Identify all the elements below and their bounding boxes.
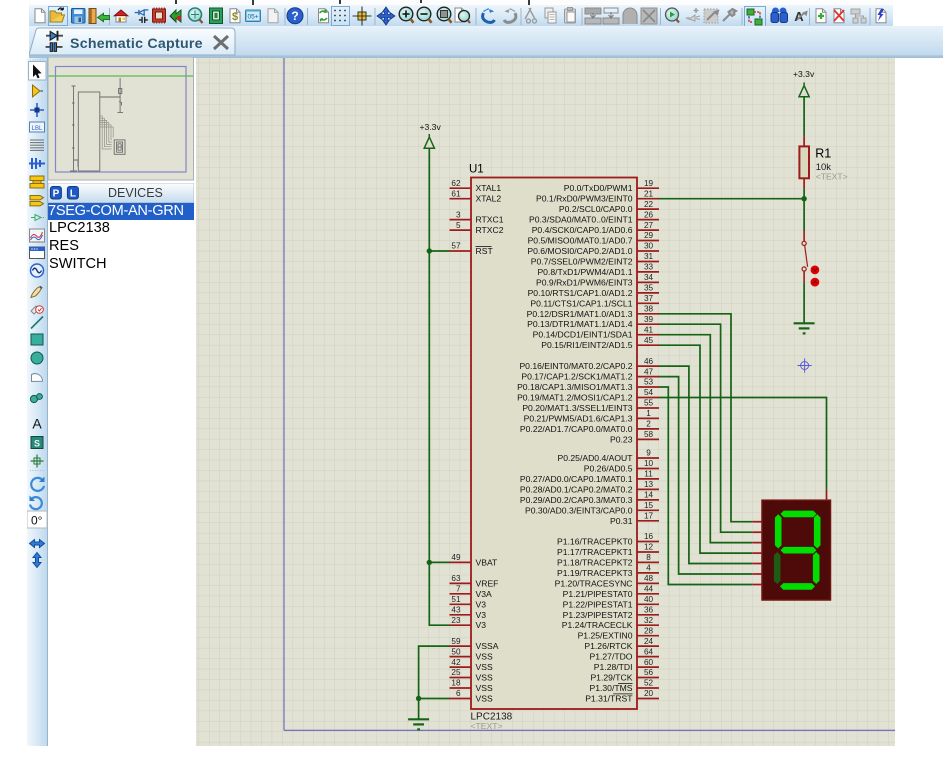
svg-text:22: 22 [644,200,654,209]
svg-text:RTXC1: RTXC1 [476,215,504,225]
svg-text:54: 54 [644,388,654,397]
svg-text:P0.3/SDA0/MAT0..0/EINT1: P0.3/SDA0/MAT0..0/EINT1 [529,215,633,225]
right margin [895,58,943,773]
svg-text:20: 20 [644,689,654,698]
svg-text:3: 3 [456,210,461,219]
svg-text:VSS: VSS [476,694,493,704]
svg-text:P1.27/TDO: P1.27/TDO [590,652,633,662]
svg-text:P0.28/AD0.1/CAP0.2/MAT0.2: P0.28/AD0.1/CAP0.2/MAT0.2 [520,484,633,494]
svg-text:7: 7 [456,585,461,594]
svg-text:24: 24 [644,637,654,646]
svg-text:5: 5 [456,221,461,230]
junction node P0.1/R1/switch [801,196,806,201]
wire P0.13 to 7-seg pin 2 [659,324,752,532]
svg-text:P0.26/AD0.5: P0.26/AD0.5 [584,464,633,474]
svg-text:V3: V3 [476,599,487,609]
svg-text:37: 37 [644,294,654,303]
svg-text:P1.17/TRACEPKT1: P1.17/TRACEPKT1 [557,547,633,557]
bottom margin [0,746,943,773]
svg-text:36: 36 [644,606,654,615]
svg-text:P0.6/MOSI0/CAP0.2/AD1.0: P0.6/MOSI0/CAP0.2/AD1.0 [527,246,632,256]
power terminal +3.3v (right) [793,69,815,97]
svg-text:P0.21/PWM5/AD1.6/CAP1.3: P0.21/PWM5/AD1.6/CAP1.3 [524,413,633,423]
svg-text:+3.3v: +3.3v [420,122,442,132]
svg-text:P0.13/DTR1/MAT1.1/AD1.4: P0.13/DTR1/MAT1.1/AD1.4 [527,319,633,329]
svg-text:RTXC2: RTXC2 [476,225,504,235]
wire +3.3v to R1 [803,97,805,137]
left margin column [0,5,27,773]
svg-text:17: 17 [644,512,654,521]
resistor R1 10k [799,136,847,189]
svg-text:1: 1 [646,409,651,418]
U1 right pins P0.x P1.x [517,179,659,704]
svg-text:XTAL1: XTAL1 [476,183,502,193]
svg-text:44: 44 [644,585,654,594]
canvas background grid [196,58,895,746]
devices header [48,183,194,203]
svg-text:VSS: VSS [476,683,493,693]
svg-text:23: 23 [451,616,461,625]
svg-text:15: 15 [644,501,654,510]
svg-text:32: 32 [644,616,654,625]
svg-text:27: 27 [644,221,654,230]
svg-text:P0.27/AD0.0/CAP0.1/MAT0.1: P0.27/AD0.0/CAP0.1/MAT0.1 [520,474,633,484]
svg-text:40: 40 [644,595,654,604]
svg-text:25: 25 [451,668,461,677]
svg-text:P0.1/RxD0/PWM3/EINT0: P0.1/RxD0/PWM3/EINT0 [536,194,633,204]
svg-text:P0.25/AD0.4/AOUT: P0.25/AD0.4/AOUT [558,453,634,463]
svg-text:VSSA: VSSA [476,641,499,651]
svg-text:56: 56 [644,668,654,677]
svg-text:<TEXT>: <TEXT> [816,172,848,182]
svg-text:P0.12/DSR1/MAT1.0/AD1.3: P0.12/DSR1/MAT1.0/AD1.3 [527,309,633,319]
svg-text:P1.25/EXTIN0: P1.25/EXTIN0 [578,631,633,641]
svg-text:P0.14/DCD1/EINT1/SDA1: P0.14/DCD1/EINT1/SDA1 [533,330,633,340]
svg-text:P0.7/SSEL0/PWM2/EINT2: P0.7/SSEL0/PWM2/EINT2 [531,257,633,267]
svg-text:12: 12 [644,543,654,552]
devices list [48,203,194,746]
svg-text:RST: RST [476,246,494,256]
svg-text:58: 58 [644,430,654,439]
svg-text:29: 29 [644,231,654,240]
svg-text:P0.8/TxD1/PWM4/AD1.1: P0.8/TxD1/PWM4/AD1.1 [537,267,632,277]
svg-text:61: 61 [451,189,461,198]
svg-text:P1.20/TRACESYNC: P1.20/TRACESYNC [555,578,633,588]
svg-text:P1.24/TRACECLK: P1.24/TRACECLK [562,620,633,630]
svg-text:VSS: VSS [476,662,493,672]
power terminal +3.3v (left) [420,122,442,148]
wire R1 to junction with P0.1 net [803,189,805,231]
svg-text:?: ? [291,9,298,23]
schematic edit canvas [196,58,895,746]
svg-text:39: 39 [644,315,654,324]
wire P0.16 to 7-seg pin 5 [659,366,752,563]
svg-text:Schematic Capture: Schematic Capture [70,36,203,52]
svg-text:33: 33 [644,263,654,272]
svg-text:P1.26/RTCK: P1.26/RTCK [584,641,632,651]
svg-text:9: 9 [646,449,651,458]
svg-text:53: 53 [644,378,654,387]
svg-text:14: 14 [644,491,654,500]
svg-text:V3: V3 [476,610,487,620]
svg-text:P0.2/SCL0/CAP0.0: P0.2/SCL0/CAP0.0 [559,204,633,214]
svg-text:18: 18 [451,679,461,688]
svg-text:XTAL2: XTAL2 [476,194,502,204]
svg-text:16: 16 [644,532,654,541]
svg-text:P0.9/RxD1/PWM6/EINT3: P0.9/RxD1/PWM6/EINT3 [536,277,633,287]
svg-text:35: 35 [644,284,654,293]
svg-text:13: 13 [644,480,654,489]
svg-text:P0.22/AD1.7/CAP0.0/MAT0.0: P0.22/AD1.7/CAP0.0/MAT0.0 [520,424,633,434]
U1 left pins (XTAL1,XTAL2,RTXC1,RTXC2,RST,VBAT,VREF,V3A,V3,VSSA,VSS) [450,179,504,704]
wire P0.12 to 7-seg pin 1 [659,314,752,522]
svg-text:05+: 05+ [247,14,258,21]
junction VSS [416,696,421,701]
svg-text:46: 46 [644,357,654,366]
svg-text:59: 59 [451,637,461,646]
svg-text:P0.18/CAP1.3/MISO1/MAT1.3: P0.18/CAP1.3/MISO1/MAT1.3 [517,382,633,392]
svg-text:19: 19 [644,179,654,188]
svg-text:4: 4 [646,564,651,573]
svg-text:P0.19/MAT1.2/MOSI1/CAP1.2: P0.19/MAT1.2/MOSI1/CAP1.2 [517,393,633,403]
svg-text:P0.10/RTS1/CAP1.0/AD1.2: P0.10/RTS1/CAP1.0/AD1.2 [528,288,633,298]
ground (right) [794,323,815,333]
svg-text:48: 48 [644,574,654,583]
svg-text:R1: R1 [815,147,831,161]
svg-text:P1.21/PIPESTAT0: P1.21/PIPESTAT0 [563,589,633,599]
svg-text:43: 43 [451,606,461,615]
svg-text:26: 26 [644,210,654,219]
svg-text:8: 8 [646,553,651,562]
svg-text:42: 42 [451,658,461,667]
svg-text:P0.23: P0.23 [610,434,633,444]
svg-text:0°: 0° [31,514,43,528]
svg-text:VSS: VSS [476,673,493,683]
svg-text:P1.28/TDI: P1.28/TDI [594,662,633,672]
wire P0.1 to R1/switch node [659,198,804,200]
ground (left) [408,719,429,729]
sheet border [284,58,895,730]
svg-text:P0.29/AD0.2/CAP0.3/MAT0.3: P0.29/AD0.2/CAP0.3/MAT0.3 [520,495,633,505]
svg-text:45: 45 [644,336,654,345]
svg-text:62: 62 [451,179,461,188]
svg-text:A: A [32,416,42,432]
junction RST rail [427,248,432,253]
svg-text:P0.0/TxD0/PWM1: P0.0/TxD0/PWM1 [564,183,633,193]
tab bar [29,26,943,58]
svg-text:34: 34 [644,273,654,282]
svg-text:P1.30/TMS: P1.30/TMS [590,683,633,693]
wire P0.15 to 7-seg pin 4 [659,345,752,553]
svg-text:50: 50 [451,647,461,656]
svg-text:P0.31: P0.31 [610,516,633,526]
svg-text:P1.16/TRACEPKT0: P1.16/TRACEPKT0 [557,537,633,547]
wire VSSA / VSS to ground [419,646,450,719]
svg-text:49: 49 [451,553,461,562]
svg-text:P1.22/PIPESTAT1: P1.22/PIPESTAT1 [563,599,633,609]
svg-text:P1.23/PIPESTAT2: P1.23/PIPESTAT2 [563,610,633,620]
svg-text:P0.20/MAT1.3/SSEL1/EINT3: P0.20/MAT1.3/SSEL1/EINT3 [522,403,632,413]
wire P0.18 to 7-seg pin 7 [659,387,752,585]
gap toolbar right [893,5,943,26]
svg-text:47: 47 [644,367,654,376]
svg-text:LBL: LBL [32,126,43,132]
svg-text:41: 41 [644,325,654,334]
junction VBAT rail [427,560,432,565]
svg-text:11: 11 [644,470,653,479]
svg-text:P: P [53,188,60,199]
wire +3.3v rail to RST / VBAT / V3 [429,148,449,625]
svg-text:51: 51 [451,595,461,604]
svg-text:30: 30 [644,242,654,251]
svg-text:L: L [70,188,76,199]
wire P0.14 to 7-seg pin 3 [659,335,752,543]
wire switch to ground [803,282,805,323]
svg-text:P0.15/RI1/EINT2/AD1.5: P0.15/RI1/EINT2/AD1.5 [541,340,632,350]
svg-text:P0.17/CAP1.2/SCK1/MAT1.2: P0.17/CAP1.2/SCK1/MAT1.2 [521,372,632,382]
wire P0.19 to 7-seg top pin [659,398,827,490]
svg-text:U1: U1 [469,164,484,176]
svg-text:55: 55 [644,399,654,408]
svg-text:21: 21 [644,189,654,198]
svg-text:P1.29/TCK: P1.29/TCK [590,673,632,683]
svg-text:P0.16/EINT0/MAT0.2/CAP0.2: P0.16/EINT0/MAT0.2/CAP0.2 [519,361,632,371]
svg-text:63: 63 [451,574,461,583]
svg-text:VBAT: VBAT [476,557,499,567]
svg-text:<TEXT>: <TEXT> [471,721,503,731]
origin marker [798,358,812,372]
svg-text:P0.11/CTS1/CAP1.1/SCL1: P0.11/CTS1/CAP1.1/SCL1 [530,298,632,308]
svg-text:P1.19/TRACEPKT3: P1.19/TRACEPKT3 [557,568,633,578]
left mode toolbar [27,58,48,746]
svg-text:+3.3v: +3.3v [793,69,815,79]
svg-text:60: 60 [644,658,654,667]
op-amp U1 microcontroller LPC2138 body [469,164,637,731]
svg-text:P1.31/TRST: P1.31/TRST [585,694,633,704]
svg-text:P0.4/SCK0/CAP0.1/AD0.6: P0.4/SCK0/CAP0.1/AD0.6 [532,225,633,235]
svg-text:VSS: VSS [476,652,493,662]
wire P0.17 to 7-seg pin 6 [659,377,752,574]
svg-text:38: 38 [644,305,654,314]
svg-text:52: 52 [644,679,654,688]
svg-text:S: S [34,439,40,449]
7-segment display 7SEG-COM-AN-GRN body [752,490,830,600]
svg-text:V3A: V3A [476,589,493,599]
menu bar descenders [29,0,889,5]
svg-text:28: 28 [644,626,654,635]
svg-text:$: $ [232,11,238,23]
svg-text:P0.30/AD0.3/EINT3/CAP0.0: P0.30/AD0.3/EINT3/CAP0.0 [525,505,633,515]
svg-text:6: 6 [456,689,461,698]
svg-text:31: 31 [644,252,654,261]
svg-text:2: 2 [646,420,651,429]
svg-text:P1.18/TRACEPKT2: P1.18/TRACEPKT2 [557,557,633,567]
svg-text:P0.5/MISO0/MAT0.1/AD0.7: P0.5/MISO0/MAT0.1/AD0.7 [528,236,633,246]
svg-text:57: 57 [451,242,461,251]
switch SW (interactive) [802,231,819,287]
overview / preview panel [48,57,194,181]
svg-text:64: 64 [644,647,654,656]
svg-text:DEVICES: DEVICES [108,186,163,200]
svg-text:V3: V3 [476,620,487,630]
svg-text:VREF: VREF [476,578,499,588]
svg-text:10: 10 [644,459,654,468]
